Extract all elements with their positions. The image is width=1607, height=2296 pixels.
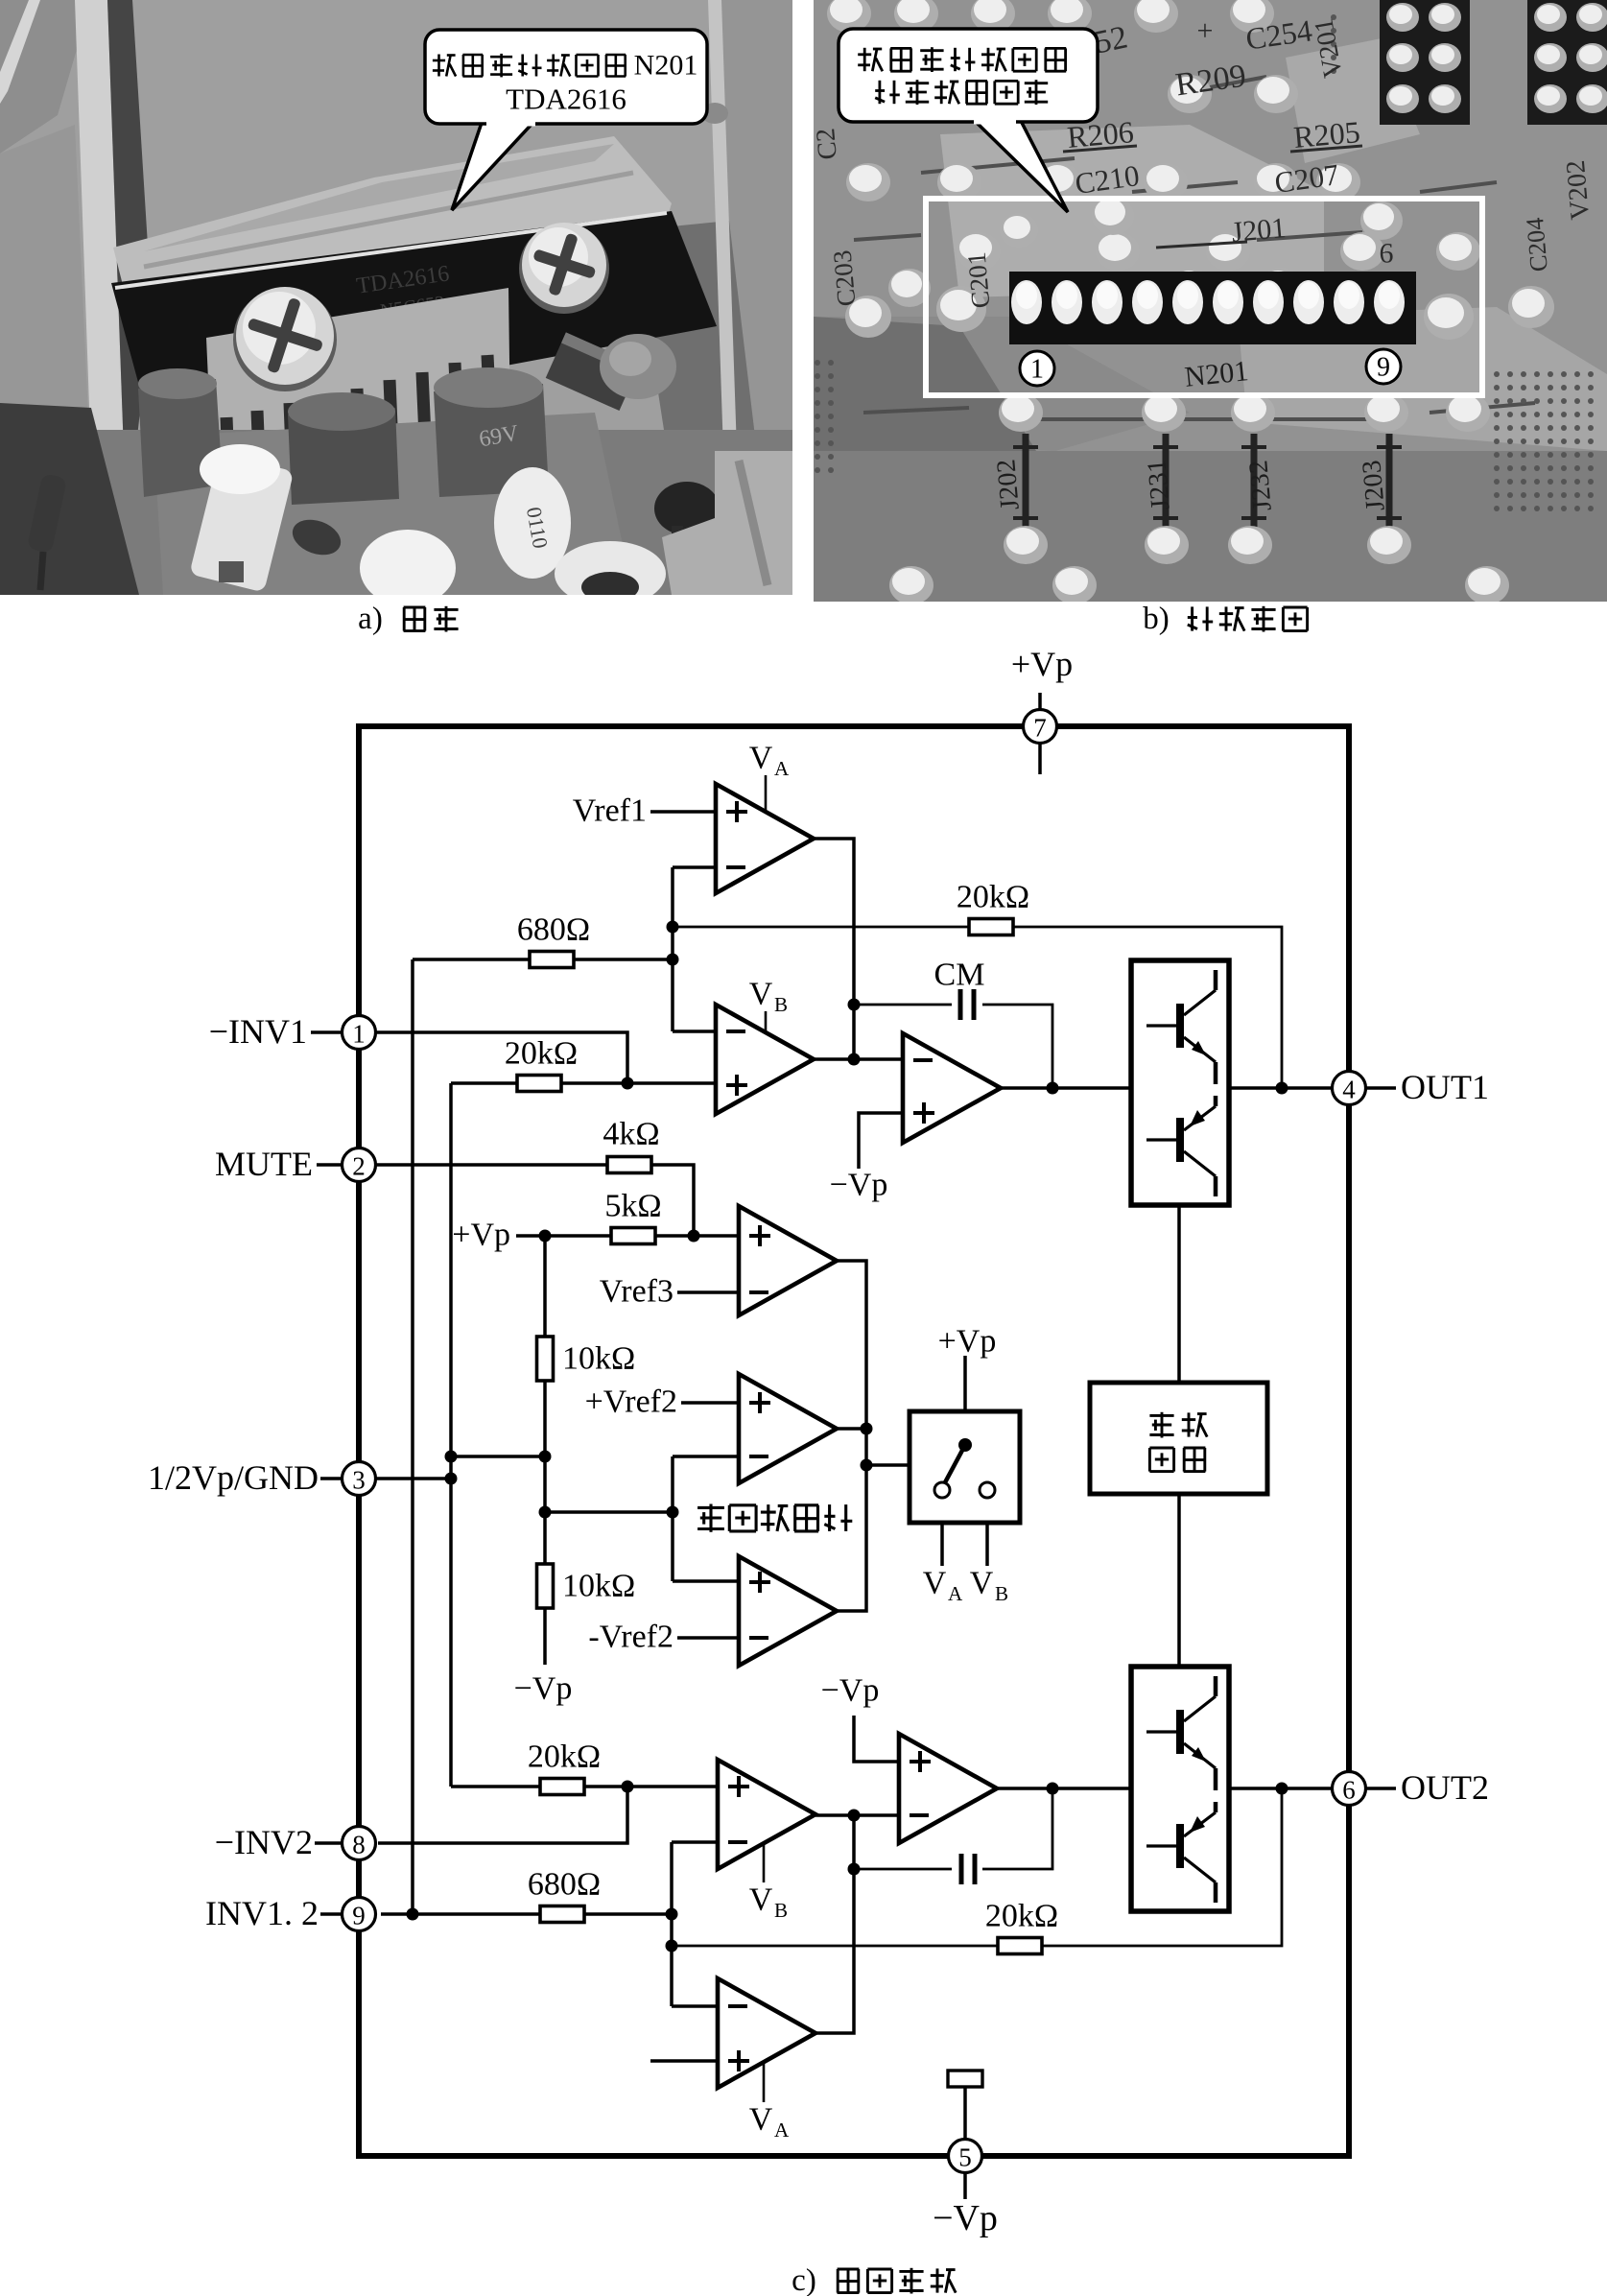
svg-text:C201: C201: [962, 251, 996, 310]
pin 1 -INV1: [343, 1016, 376, 1050]
wire VB2 output to op-amp U6 minus: [815, 1813, 899, 1817]
comparator K2: [739, 1374, 837, 1483]
junction pin8 / 20k R6: [622, 1781, 634, 1793]
wire 1/2Vp/GND label to pin3: [320, 1477, 342, 1480]
wire 20k R2 feedback OUT1 to node A: [673, 927, 1282, 1088]
resistor 10kohm R10 lower divider: [537, 1564, 636, 1608]
pin 3 1/2Vp/GND: [343, 1462, 376, 1496]
svg-text:b): b): [1143, 602, 1170, 636]
wire pin2 to 4k resistor to +Vp node: [375, 1165, 694, 1236]
junction pin3 / bus: [445, 1473, 458, 1485]
wire VA2 minus input: [672, 2004, 718, 2008]
transistor Q1 Darlington output stage 1: [1131, 960, 1229, 1205]
svg-text:V202: V202: [1561, 159, 1595, 222]
svg-text:680Ω: 680Ω: [528, 1867, 601, 1903]
svg-text:J231: J231: [1142, 458, 1175, 510]
svg-text:3: 3: [352, 1466, 366, 1495]
wire C2 compensation branch: [854, 1788, 1052, 1869]
pin 4 OUT1: [1333, 1072, 1366, 1105]
svg-text:CM: CM: [934, 958, 985, 993]
junction C2 / OUT2 wire: [1047, 1783, 1059, 1795]
wire Q1 to thermal protection box: [1177, 1205, 1181, 1383]
junction divider tap / bus: [445, 1451, 458, 1463]
wire 680ohm R1 branch to VA/VB minus node: [413, 958, 673, 961]
op-amp U6 output driver channel2: [899, 1734, 997, 1843]
svg-text:OUT1: OUT1: [1401, 1068, 1489, 1106]
wire INV1.2 label to pin9: [320, 1912, 342, 1916]
svg-text:-Vref2: -Vref2: [588, 1620, 674, 1655]
svg-text:+Vp: +Vp: [1011, 645, 1073, 683]
wire U6 output to Darlington Q2 input: [997, 1787, 1131, 1790]
svg-text:J203: J203: [1357, 459, 1390, 511]
svg-text:680Ω: 680Ω: [517, 912, 590, 948]
wire pin8 up to 20k input node: [378, 1787, 627, 1843]
wire node A vertical x=701 (VA minus to VB minus): [671, 867, 674, 1031]
junction comparator link: [667, 1506, 679, 1519]
wire Q2 output to pin6 OUT2: [1229, 1787, 1333, 1790]
svg-text:TDA2616: TDA2616: [506, 83, 626, 116]
resistor 680ohm R7: [528, 1867, 601, 1923]
wire +Vp into switch S1: [963, 1356, 967, 1441]
wire 20k R8 feedback OUT2: [672, 1788, 1282, 1946]
wire -Vp to U6 plus input: [854, 1716, 899, 1762]
wire Vref1 to VA plus input: [650, 810, 716, 814]
label VA op-amp 2: [749, 2063, 790, 2142]
wire vertical 20k bus x=470: [449, 1083, 453, 1787]
svg-text:MUTE: MUTE: [215, 1145, 313, 1183]
svg-text:+Vp: +Vp: [938, 1324, 997, 1360]
caption c 内部结构: [792, 2263, 956, 2296]
svg-text:1: 1: [1030, 355, 1044, 385]
junction VA-VB outputs: [848, 1053, 861, 1066]
wire -Vp to U3 plus input: [859, 1113, 903, 1169]
pin 7 +Vp: [1024, 710, 1057, 744]
label VB switch output: [970, 1566, 1008, 1606]
wire comparator bus to switch S1: [866, 1463, 910, 1467]
svg-text:4kΩ: 4kΩ: [603, 1117, 659, 1152]
op-amp U3 output driver channel1: [903, 1033, 1001, 1143]
svg-text:Vref1: Vref1: [573, 793, 647, 829]
resistor 10kohm R9 upper divider: [537, 1337, 636, 1381]
wire -Vref2 to K3 minus input: [677, 1636, 739, 1640]
wire MUTE label to pin2: [317, 1163, 342, 1167]
caption b 引脚排列: [1143, 602, 1307, 636]
wire VA output down to VB output: [814, 839, 854, 1059]
junction VB2 output node: [848, 1810, 861, 1822]
wire divider chain x=568 (+Vp to -Vp through 10k/10k): [543, 1236, 547, 1665]
svg-text:−Vp: −Vp: [830, 1168, 888, 1203]
svg-text:−Vp: −Vp: [933, 2198, 998, 2238]
wire +Vref2 to K2 plus input: [681, 1401, 739, 1405]
resistor 20kohm R2 feedback 1: [957, 880, 1029, 935]
pin 8 -INV2: [343, 1827, 376, 1860]
wire switch S1 output VA stub: [940, 1498, 944, 1566]
voltage comparator label: [697, 1504, 852, 1532]
junction CM branch: [848, 999, 861, 1011]
wire VA minus input: [673, 865, 716, 869]
svg-text:6: 6: [1342, 1776, 1356, 1805]
wire vertical INV1.2 bus x=430: [411, 959, 414, 1914]
svg-text:B: B: [774, 1899, 788, 1922]
thermal protection box: [1090, 1383, 1267, 1494]
IC outline box TDA2616 N201: [359, 726, 1349, 2156]
junction C2 branch: [848, 1863, 861, 1876]
svg-text:C204: C204: [1521, 217, 1553, 273]
wire vertical x=701 K2 minus to K3 plus: [671, 1456, 674, 1581]
svg-text:+: +: [1197, 15, 1214, 47]
wire K2 output stub: [837, 1427, 866, 1431]
pin 2 MUTE: [343, 1148, 376, 1182]
svg-text:+Vp: +Vp: [452, 1218, 510, 1253]
wire K2 minus input: [673, 1455, 739, 1458]
resistor 20kohm R6 input 2: [528, 1740, 601, 1795]
op-amp VA2 channel2: [718, 1978, 815, 2088]
wire pin4 to OUT1 label: [1366, 1086, 1396, 1090]
wire K3 plus input: [673, 1579, 739, 1583]
wire U3 output to Darlington Q1 input: [1001, 1086, 1131, 1090]
svg-text:B: B: [774, 993, 788, 1016]
svg-text:2: 2: [352, 1152, 366, 1181]
resistor 5kohm R5: [604, 1189, 661, 1244]
wire -INV2 label to pin8: [315, 1841, 342, 1845]
wire pin3 to divider tap: [375, 1477, 451, 1480]
junction pin9 / node B: [666, 1908, 678, 1921]
svg-text:INV1. 2: INV1. 2: [205, 1894, 319, 1932]
svg-text:6: 6: [1380, 238, 1394, 270]
svg-text:J232: J232: [1243, 459, 1277, 511]
svg-text:+Vref2: +Vref2: [585, 1385, 677, 1420]
wire 680 R7 node to VB2 minus / VA2 minus x=700: [670, 1842, 674, 2006]
wire 20k R3 to VB plus input: [451, 1081, 716, 1085]
svg-text:−Vp: −Vp: [821, 1673, 880, 1709]
wire thermal protection box to Q2: [1177, 1494, 1181, 1667]
svg-text:5kΩ: 5kΩ: [604, 1189, 661, 1224]
svg-text:20kΩ: 20kΩ: [528, 1740, 601, 1775]
svg-text:10kΩ: 10kΩ: [562, 1341, 635, 1377]
comparator K1: [739, 1206, 837, 1315]
wire pin9 INV1.2 horizontal: [381, 1912, 672, 1916]
svg-text:V: V: [970, 1566, 994, 1601]
svg-text:5: 5: [958, 2143, 972, 2172]
resistor 20kohm R3 input 1: [505, 1036, 578, 1092]
svg-text:V: V: [749, 977, 773, 1012]
svg-text:−INV2: −INV2: [215, 1823, 313, 1861]
wire 20k R6 to VB2 plus input: [451, 1785, 718, 1788]
junction +Vp / divider: [539, 1230, 552, 1243]
wire switch S1 output VB stub: [985, 1498, 989, 1566]
svg-text:C2: C2: [811, 127, 843, 160]
op-amp VA channel1: [716, 784, 814, 893]
wire comparator common mid link: [545, 1510, 673, 1514]
junction node A / 20k R2: [667, 921, 679, 934]
svg-text:4: 4: [1342, 1076, 1356, 1104]
junction CM / OUT1 wire: [1047, 1082, 1059, 1095]
wire VB minus input: [673, 1030, 716, 1033]
junction divider / comparator link: [539, 1506, 552, 1519]
svg-text:V: V: [749, 2102, 773, 2138]
wire -INV1 label to pin1: [311, 1030, 342, 1034]
svg-text:c): c): [792, 2263, 816, 2296]
svg-text:9: 9: [352, 1902, 366, 1930]
junction pin1 / 20k R3: [622, 1077, 634, 1090]
label VA op-amp 1: [749, 741, 790, 812]
pin 9 INV1.2: [343, 1898, 376, 1931]
junction pin9 / INV bus: [407, 1908, 419, 1921]
svg-text:8: 8: [352, 1831, 366, 1859]
junction 20k R8 / OUT2 wire: [1276, 1783, 1288, 1795]
wire divider tap link: [451, 1455, 545, 1458]
capacitor CM compensation 1: [934, 958, 985, 1023]
svg-text:9: 9: [1377, 353, 1390, 383]
svg-text:Vref3: Vref3: [600, 1274, 674, 1310]
junction divider mid: [539, 1451, 552, 1463]
wire VA2 plus input stub: [650, 2059, 718, 2063]
svg-text:A: A: [948, 1582, 963, 1605]
svg-text:1: 1: [352, 1020, 366, 1049]
svg-text:A: A: [774, 757, 790, 780]
svg-text:B: B: [995, 1582, 1008, 1605]
svg-text:a): a): [358, 602, 383, 636]
svg-text:V: V: [923, 1566, 947, 1601]
resistor 4kohm R4: [603, 1117, 659, 1173]
svg-text:20kΩ: 20kΩ: [957, 880, 1029, 915]
svg-text:20kΩ: 20kΩ: [505, 1036, 578, 1072]
svg-text:7: 7: [1033, 714, 1047, 743]
wire pin7 +Vp stub: [1038, 693, 1042, 709]
wire Vref3 to K1 minus input: [677, 1290, 739, 1294]
svg-text:V: V: [749, 741, 773, 776]
svg-text:20kΩ: 20kΩ: [985, 1899, 1058, 1934]
svg-text:N201: N201: [634, 50, 698, 82]
wire comparator outputs bus x=903: [837, 1261, 866, 1611]
svg-text:J202: J202: [991, 458, 1025, 510]
capacitor C2 compensation 2: [952, 1852, 982, 1886]
pin 6 OUT2: [1333, 1772, 1366, 1806]
comparator K3: [739, 1556, 837, 1666]
junction node A / 680 R1: [667, 954, 679, 966]
label VA switch output: [923, 1566, 963, 1606]
op-amp VB2 channel2: [718, 1760, 815, 1869]
label VB op-amp 1: [749, 977, 788, 1033]
junction 20k R2 / OUT1 wire: [1276, 1082, 1288, 1095]
svg-text:10kΩ: 10kΩ: [562, 1569, 635, 1604]
svg-text:−Vp: −Vp: [514, 1671, 573, 1707]
svg-text:C203: C203: [828, 249, 862, 308]
wire VA2 output up to VB2 output node x=890: [815, 1815, 854, 2033]
wire pin6 to OUT2 label: [1366, 1787, 1396, 1790]
wire Q1 output to pin4 OUT1: [1229, 1086, 1333, 1090]
svg-text:V: V: [749, 1882, 773, 1918]
wire VB2 minus input: [672, 1840, 718, 1844]
op-amp VB channel1: [716, 1005, 814, 1114]
resistor 20kohm R8 feedback 2: [985, 1899, 1058, 1954]
caption a 外部: [358, 602, 458, 636]
resistor 680ohm R1: [517, 912, 590, 968]
wire pin5 -Vp stub and pad: [963, 2088, 967, 2139]
label VB op-amp 2: [749, 1845, 788, 1922]
wire +Vp node to comparator K1 plus input (5k chain): [516, 1234, 739, 1238]
switch S1 mute switch box: [910, 1411, 1020, 1523]
svg-text:−INV1: −INV1: [209, 1012, 307, 1051]
wire pin1 to 20k node: [375, 1032, 627, 1083]
wire VB output to op-amp U3 minus: [814, 1057, 903, 1061]
svg-text:N201: N201: [1183, 355, 1250, 393]
svg-text:1/2Vp/GND: 1/2Vp/GND: [148, 1458, 319, 1497]
junction K2 output: [861, 1423, 873, 1435]
junction 4k / 5k: [688, 1230, 700, 1243]
junction node B / 20k R8: [666, 1940, 678, 1953]
svg-text:A: A: [774, 2118, 790, 2142]
transistor Q2 Darlington output stage 2: [1131, 1667, 1229, 1911]
pin 5 -Vp: [949, 2140, 982, 2173]
svg-text:OUT2: OUT2: [1401, 1768, 1489, 1807]
wire CM compensation branch: [854, 1005, 1052, 1088]
junction bus / switch: [861, 1459, 873, 1472]
